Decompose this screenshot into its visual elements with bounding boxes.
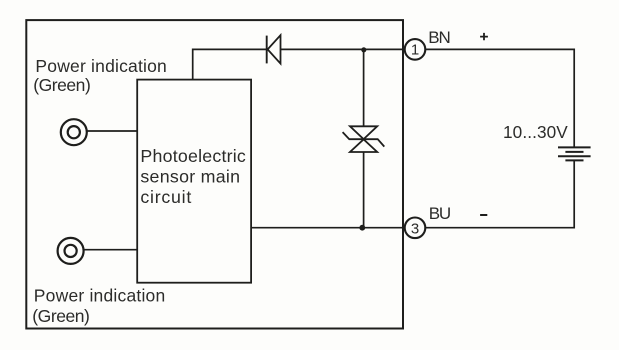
svg-text:sensor main: sensor main bbox=[140, 166, 240, 186]
svg-text:BN: BN bbox=[428, 28, 449, 47]
svg-text:10...30V: 10...30V bbox=[503, 122, 568, 142]
svg-text:1: 1 bbox=[411, 42, 419, 59]
svg-text:Photoelectric: Photoelectric bbox=[140, 146, 246, 166]
svg-text:(Green): (Green) bbox=[33, 75, 90, 95]
svg-text:Power indication: Power indication bbox=[34, 286, 166, 306]
svg-text:(Green): (Green) bbox=[32, 306, 89, 326]
svg-text:BU: BU bbox=[429, 204, 450, 223]
svg-text:Power indication: Power indication bbox=[35, 56, 167, 76]
svg-text:circuit: circuit bbox=[140, 187, 192, 207]
svg-text:3: 3 bbox=[411, 220, 419, 237]
